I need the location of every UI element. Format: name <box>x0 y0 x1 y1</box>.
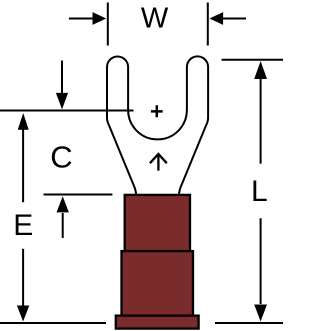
C reference line <box>0 110 134 112</box>
dimension W right arrow <box>222 18 246 20</box>
barrel lower section <box>122 251 194 316</box>
dimension L bottom arrow <box>260 218 262 304</box>
L top extension line <box>222 59 283 61</box>
barrel upper section <box>125 195 190 251</box>
svg-text:L: L <box>251 175 268 208</box>
fork terminal outline <box>107 56 208 196</box>
svg-text:W: W <box>141 3 169 35</box>
dimension W right extension line <box>207 3 209 46</box>
dimension C up arrow <box>62 213 64 238</box>
L bottom extension line <box>215 322 283 324</box>
center mark plus <box>151 105 163 117</box>
dimension E top arrow <box>22 129 24 202</box>
dimension E bottom arrow <box>22 249 24 306</box>
svg-text:C: C <box>50 140 72 175</box>
dimension C down arrow <box>61 61 63 96</box>
svg-text:E: E <box>13 209 33 242</box>
barrel lip <box>116 316 199 329</box>
dimension W left extension line <box>107 3 109 46</box>
dimension L top arrow <box>254 61 267 79</box>
dimension W left arrow <box>69 18 94 20</box>
orientation arrow up <box>150 154 167 171</box>
E bottom extension line <box>0 322 106 324</box>
C bottom extension line <box>44 194 113 196</box>
